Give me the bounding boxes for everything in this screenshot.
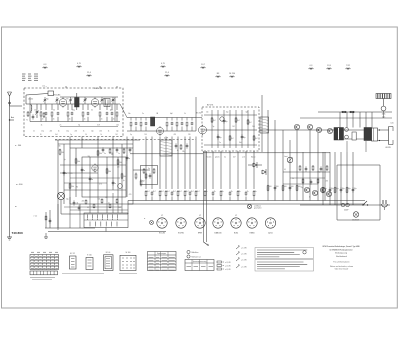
psu component p6 xyxy=(352,187,354,189)
svg-text:= 1 mW: = 1 mW xyxy=(241,259,247,261)
svg-text:0,1: 0,1 xyxy=(284,169,286,171)
svg-text:0,1: 0,1 xyxy=(224,156,226,158)
output stage verticals below xyxy=(346,141,348,152)
notes text box upper xyxy=(255,248,314,259)
svg-text:ECC85: ECC85 xyxy=(54,95,62,97)
AM box component m8 xyxy=(253,135,255,136)
svg-text:1k: 1k xyxy=(83,131,85,133)
tuner component d6 xyxy=(71,104,73,110)
driver transformer dark core xyxy=(364,128,372,141)
svg-text:4,75: 4,75 xyxy=(161,63,165,65)
svg-text:BV 276: BV 276 xyxy=(207,105,213,107)
svg-text:470: 470 xyxy=(326,181,329,183)
AM lower component l7 xyxy=(253,190,255,191)
legend circled item 1 xyxy=(187,250,190,253)
speaker bracket xyxy=(388,127,390,145)
svg-text:30: 30 xyxy=(40,134,42,136)
volume pot xyxy=(287,157,293,163)
svg-text:2k2: 2k2 xyxy=(255,138,258,140)
svg-text:2k2: 2k2 xyxy=(249,122,252,124)
svg-text:1k: 1k xyxy=(247,191,249,193)
svg-text:24 234: 24 234 xyxy=(229,73,235,75)
svg-text:3k: 3k xyxy=(77,203,79,205)
IF transformer 4ZF hatched box xyxy=(160,140,172,156)
tuner inner bottom rail xyxy=(60,126,118,128)
AM-FM switching nest outer loop xyxy=(70,148,133,204)
svg-text:Laut: Laut xyxy=(284,155,288,158)
nest component n1 xyxy=(59,149,61,150)
audio transistors xyxy=(294,124,299,129)
svg-text:21,4: 21,4 xyxy=(87,72,91,74)
svg-text:50µ: 50µ xyxy=(331,188,334,190)
ratio detector components xyxy=(143,168,145,169)
tuner component d8 xyxy=(87,104,89,110)
nest component n5 xyxy=(97,150,99,151)
svg-text:5p: 5p xyxy=(213,126,215,128)
nest component n9 xyxy=(121,173,123,174)
bus component b9 xyxy=(195,190,197,191)
svg-text:5k: 5k xyxy=(292,178,294,180)
svg-text:470: 470 xyxy=(99,183,102,185)
svg-text:1k2: 1k2 xyxy=(119,207,122,209)
AM lower component l6 xyxy=(245,191,247,193)
switch bar below table xyxy=(30,271,58,275)
tuner component d2 xyxy=(45,104,47,110)
output stage rails xyxy=(318,111,392,113)
nest component n2 xyxy=(63,170,65,172)
measurement table xyxy=(148,252,177,271)
antenna tap xyxy=(9,119,10,120)
legend small table xyxy=(185,260,214,271)
bus component b6 xyxy=(177,190,179,191)
svg-text:1n: 1n xyxy=(118,153,120,155)
svg-text:EC 92: EC 92 xyxy=(70,253,75,255)
svg-text:ECH81: ECH81 xyxy=(178,233,184,235)
FM IF upper rail xyxy=(127,117,196,119)
svg-text:8k2: 8k2 xyxy=(142,181,145,183)
drops below AM box xyxy=(204,151,206,189)
svg-text:w~ 800: w~ 800 xyxy=(16,184,23,186)
tube socket diagram ECC85 xyxy=(157,218,167,228)
tuner component d10 xyxy=(106,104,108,110)
ferrite trimmer lead down xyxy=(383,111,385,118)
caption under sockets xyxy=(62,272,104,274)
svg-text:240: 240 xyxy=(58,146,61,148)
rectifier circles xyxy=(341,203,345,207)
nest extra horizontals xyxy=(60,172,98,174)
svg-text:1k: 1k xyxy=(58,131,60,133)
svg-text:10k: 10k xyxy=(108,171,111,173)
svg-text:5p: 5p xyxy=(64,159,66,161)
tuner main rail xyxy=(26,103,120,105)
psu bottom rail xyxy=(300,204,390,206)
svg-text:240: 240 xyxy=(88,156,91,158)
svg-text:1k: 1k xyxy=(231,191,233,193)
AM lower component l4 xyxy=(229,191,231,193)
svg-text:25µ: 25µ xyxy=(66,199,69,201)
AM osc small circle xyxy=(220,117,224,121)
long drop wires from tuner box xyxy=(69,137,71,149)
svg-text:740 800: 740 800 xyxy=(12,231,23,235)
antenna input xyxy=(9,96,11,232)
chassis bus upper xyxy=(128,200,365,202)
svg-text:50: 50 xyxy=(85,134,87,136)
svg-text:1k: 1k xyxy=(41,124,43,126)
audio component u4 xyxy=(289,185,291,187)
dashed boundary under FM IF xyxy=(55,139,196,141)
nest component n4 xyxy=(89,176,91,178)
svg-text:240: 240 xyxy=(252,126,255,128)
voltage table grid xyxy=(30,255,59,270)
nest component n12 xyxy=(81,167,83,169)
ferrite antenna trimmer xyxy=(381,106,386,111)
svg-text:4k7: 4k7 xyxy=(186,191,189,193)
main B+ rail right xyxy=(259,129,334,131)
svg-text:220: 220 xyxy=(50,131,53,133)
voltage table header marks xyxy=(31,251,34,253)
wire transformer to driver xyxy=(344,129,365,131)
psu verticals xyxy=(322,152,324,205)
bus component b7 xyxy=(184,190,186,191)
nest component n11 xyxy=(69,183,71,184)
nest small circle xyxy=(118,184,123,189)
svg-text:4k7: 4k7 xyxy=(153,191,156,193)
AM lower component l2 xyxy=(212,191,214,193)
svg-text:2n: 2n xyxy=(101,119,103,121)
svg-text:50µ: 50µ xyxy=(324,188,327,190)
svg-text:2n: 2n xyxy=(113,119,115,121)
svg-text:4k7: 4k7 xyxy=(233,156,236,158)
svg-text:1k: 1k xyxy=(214,191,216,193)
AM box component m1 xyxy=(211,117,213,118)
svg-text:5p: 5p xyxy=(47,98,49,100)
svg-text:1,5n: 1,5n xyxy=(382,117,385,119)
bus component b2 xyxy=(151,191,153,193)
svg-text:4k7: 4k7 xyxy=(147,191,150,193)
svg-text:Ant: Ant xyxy=(11,116,14,119)
svg-text:5p: 5p xyxy=(93,170,95,172)
svg-text:30p: 30p xyxy=(243,137,246,139)
AM box component m5 xyxy=(235,117,237,118)
svg-text:25µ: 25µ xyxy=(301,187,304,189)
svg-text:30: 30 xyxy=(53,110,55,112)
svg-text:5n: 5n xyxy=(114,183,116,185)
svg-text:5n: 5n xyxy=(91,179,93,181)
FM IF lower rail xyxy=(127,130,196,132)
svg-text:4k7: 4k7 xyxy=(197,191,200,193)
jack leads xyxy=(60,200,62,214)
svg-text:EL84: EL84 xyxy=(234,233,238,235)
dial pointer verticals xyxy=(203,151,205,242)
nest verticals xyxy=(57,140,59,230)
svg-text:15p: 15p xyxy=(91,131,94,133)
headphone jack xyxy=(57,192,64,199)
mains switch xyxy=(363,201,367,205)
nest verticals extension xyxy=(57,204,59,228)
bus component b1 xyxy=(145,190,147,191)
svg-text:5n: 5n xyxy=(108,203,110,205)
svg-text:220: 220 xyxy=(75,131,78,133)
tuner box top tick marks xyxy=(65,86,67,88)
svg-text:2n: 2n xyxy=(219,142,221,144)
svg-text:6p8: 6p8 xyxy=(110,110,113,112)
nest tube V3 xyxy=(92,165,98,171)
svg-text:240: 240 xyxy=(159,134,162,136)
detector diode D2 xyxy=(262,170,266,172)
svg-text:220: 220 xyxy=(188,134,191,136)
lower horizontal y228 xyxy=(45,227,95,229)
svg-text:2n: 2n xyxy=(60,124,62,126)
inter-stage small box xyxy=(352,132,356,140)
center long drop wires xyxy=(145,137,147,190)
tuner component d9 xyxy=(99,104,101,110)
svg-text:50µ: 50µ xyxy=(336,188,339,190)
bus component b4 xyxy=(165,190,167,191)
svg-text:1k: 1k xyxy=(309,196,311,198)
svg-text:10k: 10k xyxy=(119,162,122,164)
tube socket diagram EF89 xyxy=(195,218,205,228)
svg-text:10k: 10k xyxy=(123,176,126,178)
svg-text:6,3: 6,3 xyxy=(44,64,47,66)
svg-text:240: 240 xyxy=(117,167,120,169)
svg-text:15p: 15p xyxy=(66,131,69,133)
svg-text:3n9: 3n9 xyxy=(97,124,100,126)
triode V1b xyxy=(91,99,99,107)
svg-text:2n: 2n xyxy=(84,119,86,121)
tube socket diagram EM84 xyxy=(247,218,257,228)
svg-text:EF89: EF89 xyxy=(198,233,202,235)
tube socket diagram EABC80 xyxy=(213,218,223,228)
nest lower verticals to switch xyxy=(89,197,91,213)
svg-text:15p: 15p xyxy=(226,112,229,114)
svg-text:220V~: 220V~ xyxy=(344,210,349,212)
svg-text:50: 50 xyxy=(91,110,93,112)
svg-text:470: 470 xyxy=(174,134,177,136)
svg-text:1k: 1k xyxy=(255,191,257,193)
svg-text:21,4: 21,4 xyxy=(165,72,169,74)
bus left verticals xyxy=(127,201,129,215)
svg-text:2n: 2n xyxy=(42,119,44,121)
input coil L1 xyxy=(30,105,33,110)
svg-text:5n: 5n xyxy=(128,158,130,160)
svg-text:1k: 1k xyxy=(33,131,35,133)
svg-text:470: 470 xyxy=(129,194,132,196)
svg-text:6p8: 6p8 xyxy=(246,112,249,114)
svg-text:4Ω 5W: 4Ω 5W xyxy=(385,147,391,149)
svg-text:3n9: 3n9 xyxy=(239,142,242,144)
wire antenna to tuner xyxy=(9,119,11,121)
svg-text:7/12: 7/12 xyxy=(346,65,350,67)
nest component n10 xyxy=(126,155,128,157)
svg-text:4,75: 4,75 xyxy=(77,63,81,65)
svg-text:-¬ 1,2: -¬ 1,2 xyxy=(33,216,37,218)
audio component u2 xyxy=(274,185,276,187)
audio dense cluster horizontals xyxy=(283,171,330,173)
AM lower component l1 xyxy=(204,190,206,191)
nest upper components xyxy=(102,147,104,149)
output stage verticals xyxy=(339,112,341,128)
svg-text:L 12 ---: L 12 --- xyxy=(42,85,48,87)
ferrite antenna lead xyxy=(383,99,385,107)
dial lamp xyxy=(353,212,359,218)
tube socket diagram EL84 xyxy=(231,218,241,228)
dial pointer arrow xyxy=(204,242,209,246)
svg-text:4k7: 4k7 xyxy=(191,191,194,193)
svg-text:15p: 15p xyxy=(116,131,119,133)
caption under St100 socket xyxy=(119,273,137,275)
AM lower component l5 xyxy=(237,190,239,191)
svg-text:5n: 5n xyxy=(148,168,150,170)
svg-text:12,6: 12,6 xyxy=(327,65,331,67)
svg-text:2k2: 2k2 xyxy=(213,120,216,122)
detector diode D1 xyxy=(253,163,257,165)
power loop rectangle xyxy=(337,164,380,166)
svg-text:4k7: 4k7 xyxy=(179,191,182,193)
svg-text:= 0,5 W: = 0,5 W xyxy=(225,265,231,267)
svg-text:110/220V: 110/220V xyxy=(352,220,360,222)
svg-text:470: 470 xyxy=(70,173,73,175)
AM converter dashed box xyxy=(202,107,259,151)
svg-text:3n9: 3n9 xyxy=(55,134,58,136)
lower left verticals xyxy=(45,212,47,228)
svg-text:Spannungen: Spannungen xyxy=(157,253,166,255)
FM IF amp tube V2 xyxy=(157,128,164,135)
svg-text:BV 254: BV 254 xyxy=(196,113,201,115)
svg-text:100: 100 xyxy=(276,186,279,188)
psu component p2 xyxy=(329,187,331,189)
svg-text:2k2: 2k2 xyxy=(237,120,240,122)
svg-text:AZ11: AZ11 xyxy=(268,232,272,235)
svg-text:5p: 5p xyxy=(130,134,132,136)
notes text box lower xyxy=(255,260,314,272)
tuner inner loop closures xyxy=(29,97,31,122)
psu component p1 xyxy=(322,187,324,188)
tuner upper rail xyxy=(60,96,118,98)
svg-text:470: 470 xyxy=(66,98,69,100)
svg-text:2n: 2n xyxy=(142,113,144,115)
ground lug on bus xyxy=(247,204,251,208)
svg-text:Nachlaufwerk: Nachlaufwerk xyxy=(336,256,347,258)
ferrite antenna striped bar xyxy=(376,94,391,99)
tuner trimmers above rail xyxy=(44,97,46,99)
svg-text:1k: 1k xyxy=(206,191,208,193)
switch bank contacts xyxy=(87,215,89,219)
chassis bus lower xyxy=(128,203,365,205)
AM mixer tube V4 xyxy=(199,126,207,134)
tuner component d3 xyxy=(51,104,53,110)
tuner component d7 xyxy=(82,104,84,110)
FM IF transformer T1 (dark core) xyxy=(75,98,80,108)
cluster left of bus xyxy=(135,173,137,175)
svg-text:EM84: EM84 xyxy=(250,233,255,235)
svg-text:= 1 mW: = 1 mW xyxy=(241,266,247,268)
mains plug xyxy=(382,200,384,204)
AM box rails xyxy=(204,114,257,116)
svg-text:70: 70 xyxy=(26,120,28,122)
ratio detector box xyxy=(141,166,158,185)
svg-text:10n: 10n xyxy=(206,112,209,114)
antenna coupling cap xyxy=(9,100,11,102)
tuner box exit wires right xyxy=(120,104,127,118)
switch bank stem xyxy=(105,228,107,232)
ground left bottom xyxy=(9,232,11,237)
svg-text:an 6: an 6 xyxy=(242,156,245,158)
svg-text:100: 100 xyxy=(269,186,272,188)
FM tuner shield dashed box xyxy=(24,88,123,137)
svg-text:8p: 8p xyxy=(78,124,80,126)
svg-text:5n: 5n xyxy=(104,153,106,155)
svg-text:5n: 5n xyxy=(83,170,85,172)
svg-text:10k: 10k xyxy=(99,153,102,155)
svg-text:30p: 30p xyxy=(219,137,222,139)
svg-text:Masse: Masse xyxy=(251,156,256,158)
lower left ground tail xyxy=(45,233,47,237)
svg-text:Bildziffern: Bildziffern xyxy=(192,252,199,254)
svg-text:ECC85: ECC85 xyxy=(159,233,165,235)
svg-text:50µ: 50µ xyxy=(348,188,351,190)
transformer secondary circles xyxy=(345,128,349,132)
svg-text:10k: 10k xyxy=(71,186,74,188)
svg-text:10n: 10n xyxy=(34,110,37,112)
svg-text:EABC80: EABC80 xyxy=(215,232,222,235)
bus component b3 xyxy=(159,190,161,191)
AM box component m7 xyxy=(247,119,249,120)
tuner component d4 xyxy=(57,104,59,110)
oscillator coil assembly xyxy=(104,99,110,107)
table caption xyxy=(30,277,55,279)
svg-text:0,1: 0,1 xyxy=(87,207,89,209)
tuning gang C1a xyxy=(36,109,38,111)
components right of 4ZF xyxy=(175,143,177,145)
ZF transformer hatched box xyxy=(260,117,269,133)
svg-text:2k2: 2k2 xyxy=(231,138,234,140)
svg-text:6p8: 6p8 xyxy=(170,113,173,115)
svg-text:St 100: St 100 xyxy=(126,251,131,254)
AM-FM switching nest inner loop xyxy=(82,157,126,197)
svg-text:an Masse: an Masse xyxy=(254,206,261,208)
svg-text:4k7: 4k7 xyxy=(173,191,176,193)
svg-text:1n: 1n xyxy=(40,111,42,113)
tuner component d12 xyxy=(116,104,118,110)
bus component b5 xyxy=(171,191,173,193)
svg-text:100µ: 100µ xyxy=(317,171,321,173)
driver transistors lower xyxy=(304,187,309,192)
svg-text:1k: 1k xyxy=(184,113,186,115)
svg-text:= 0,5 W: = 0,5 W xyxy=(225,269,231,271)
nest lower horizontals xyxy=(64,206,122,208)
svg-text:15p: 15p xyxy=(72,110,75,112)
audio cluster extra components xyxy=(299,165,301,166)
AM box verticals xyxy=(211,110,213,148)
AM box component m4 xyxy=(229,135,231,136)
bus component b8 xyxy=(189,191,191,193)
nest component n6 xyxy=(106,168,108,169)
svg-text:10k: 10k xyxy=(61,152,64,154)
nest rails xyxy=(55,139,140,141)
svg-text:1,05: 1,05 xyxy=(390,123,393,125)
triode V1a xyxy=(59,99,67,107)
AM box component m2 xyxy=(217,134,219,136)
svg-text:10n: 10n xyxy=(128,113,131,115)
rail y154 center xyxy=(130,153,203,155)
svg-text:220: 220 xyxy=(82,200,85,202)
svg-text:1k: 1k xyxy=(222,191,224,193)
tuner component d11 xyxy=(111,104,113,110)
svg-text:4k7: 4k7 xyxy=(167,191,170,193)
svg-text:100: 100 xyxy=(291,186,294,188)
svg-text:UKW-Transistor-Beilaufsänger „: UKW-Transistor-Beilaufsänger „Sonata” Ty… xyxy=(322,245,360,248)
svg-text:1/2: 1/2 xyxy=(199,215,201,217)
